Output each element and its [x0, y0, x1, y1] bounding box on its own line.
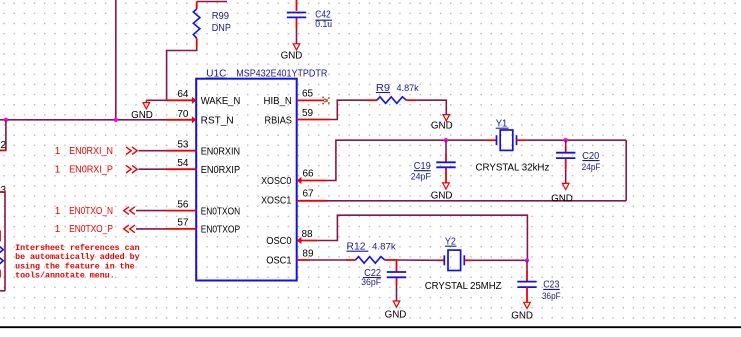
svg-text:EN0RXIP: EN0RXIP — [201, 165, 241, 176]
wire — [526, 139, 626, 141]
svg-text:GND: GND — [385, 310, 407, 321]
pin name OSC0 — [266, 236, 292, 247]
resistor R99 — [193, 2, 200, 48]
net label EN0TXO_N — [55, 206, 113, 217]
pin number 59 — [302, 108, 314, 119]
pin number 56 — [177, 199, 189, 210]
wire pin 88 — [297, 237, 317, 244]
svg-text:WAKE_N: WAKE_N — [201, 96, 241, 107]
svg-text:EN0RXIN: EN0RXIN — [201, 147, 240, 158]
capacitor C42 — [287, 13, 306, 29]
svg-text:64: 64 — [177, 89, 189, 100]
svg-text:DNP: DNP — [212, 23, 231, 34]
wire pin 56 — [136, 210, 197, 212]
wire — [330, 100, 366, 119]
svg-text:88: 88 — [302, 229, 314, 240]
note text — [15, 243, 139, 280]
node junction — [114, 118, 118, 122]
svg-text:EN0RXI_P: EN0RXI_P — [69, 165, 113, 176]
wire — [0, 119, 166, 121]
wire — [416, 100, 446, 114]
capacitor C23 — [517, 261, 536, 303]
pin name XOSC1 — [261, 196, 292, 207]
sheet connector — [124, 207, 135, 215]
label C42 — [315, 10, 332, 21]
svg-text:4.87k: 4.87k — [397, 83, 419, 94]
node junction — [564, 138, 568, 142]
svg-text:65: 65 — [302, 89, 314, 100]
pin number 3 — [1, 185, 7, 196]
wire pin 57 — [136, 228, 197, 230]
label 4.87k R9 — [397, 83, 419, 94]
svg-text:4.87k: 4.87k — [372, 242, 396, 253]
wire pin 65 — [297, 99, 324, 101]
wire — [197, 1, 227, 3]
svg-text:GND: GND — [551, 193, 573, 204]
svg-text:OSC0: OSC0 — [266, 236, 292, 247]
wire — [296, 0, 298, 11]
svg-text:54: 54 — [177, 158, 189, 169]
svg-text:1: 1 — [55, 146, 61, 157]
svg-text:24pF: 24pF — [411, 171, 431, 181]
label C19 — [414, 161, 431, 172]
wire pin 53 — [139, 150, 197, 152]
svg-text:36pF: 36pF — [542, 291, 561, 301]
label R99 — [212, 11, 230, 22]
label C20 — [582, 151, 599, 162]
wire pin 66 — [297, 177, 327, 184]
svg-text:using the feature in the: using the feature in the — [15, 261, 135, 271]
svg-text:EN0TXO_N: EN0TXO_N — [69, 206, 113, 217]
net label EN0RXI_P — [55, 165, 113, 176]
wire — [472, 259, 527, 261]
ground — [551, 183, 573, 204]
capacitor C22 — [387, 260, 406, 301]
wire — [625, 140, 627, 201]
wire — [438, 259, 444, 261]
label 24pF C20 — [582, 162, 601, 172]
wire — [0, 192, 5, 291]
svg-text:59: 59 — [302, 108, 314, 119]
wire — [310, 259, 346, 261]
svg-text:53: 53 — [177, 140, 189, 151]
svg-text:CRYSTAL 25MHZ: CRYSTAL 25MHZ — [425, 281, 502, 292]
pin name RBIAS — [265, 116, 293, 127]
crystal Y1 — [497, 130, 517, 150]
node junction — [525, 258, 529, 262]
wire — [517, 139, 527, 141]
ground — [431, 183, 453, 202]
pin name XOSC0 — [261, 176, 292, 187]
wire — [446, 139, 486, 141]
wire — [296, 29, 298, 44]
svg-text:89: 89 — [302, 249, 314, 260]
label 36pF C23 — [542, 291, 561, 301]
node junction — [444, 138, 448, 142]
svg-text:R99: R99 — [212, 11, 230, 22]
pin number 66 — [303, 169, 315, 180]
pin number 65 — [302, 89, 314, 100]
pin number 54 — [177, 158, 189, 169]
capacitor C19 — [436, 140, 455, 183]
label 24pF C19 — [411, 171, 431, 181]
svg-text:66: 66 — [303, 169, 315, 180]
svg-text:67: 67 — [303, 188, 315, 199]
pin name EN0RXIN — [201, 147, 240, 158]
svg-text:36pF: 36pF — [361, 277, 381, 287]
pin name RST_N — [201, 116, 234, 127]
svg-text:EN0RXI_N: EN0RXI_N — [69, 146, 113, 157]
svg-text:70: 70 — [177, 109, 189, 120]
svg-text:1: 1 — [55, 206, 61, 217]
wire pin 54 — [139, 168, 197, 170]
pin number 70 — [177, 109, 189, 120]
pin name OSC1 — [266, 256, 292, 267]
svg-text:HIB_N: HIB_N — [264, 96, 292, 107]
label MSP432E401YTPDTR — [236, 68, 327, 79]
op-amp U1C MSP432E401YTPDTR box — [196, 79, 297, 281]
node junction — [4, 118, 8, 122]
svg-text:tools/annotate menu.: tools/annotate menu. — [15, 270, 115, 280]
wire pin 70 — [166, 116, 196, 123]
resistor R9 — [366, 97, 416, 104]
svg-text:GND: GND — [431, 121, 453, 132]
label Y2 — [445, 237, 457, 248]
wire pin 59 — [297, 119, 330, 121]
svg-text:57: 57 — [177, 218, 189, 229]
label 0.1u — [315, 19, 332, 29]
pin name WAKE_N — [201, 96, 241, 107]
svg-text:be automatically added by: be automatically added by — [15, 252, 139, 262]
svg-text:RBIAS: RBIAS — [265, 116, 293, 127]
svg-text:XOSC0: XOSC0 — [261, 176, 292, 187]
svg-text:24pF: 24pF — [582, 162, 601, 172]
crystal Y2 — [444, 250, 464, 270]
label C22 — [363, 268, 382, 279]
sheet connector — [126, 165, 137, 173]
label 4.87k R12 — [372, 242, 396, 253]
svg-text:2: 2 — [1, 140, 7, 151]
svg-text:OSC1: OSC1 — [266, 256, 292, 267]
pin number 67 — [303, 188, 315, 199]
svg-text:1: 1 — [55, 224, 61, 235]
pin number 2 — [1, 140, 7, 151]
wire — [327, 140, 446, 180]
wire — [397, 259, 439, 261]
label U1C — [206, 68, 227, 79]
net label EN0TXO_P — [55, 224, 113, 235]
ground — [131, 103, 153, 122]
svg-text:XOSC1: XOSC1 — [261, 196, 292, 207]
label Y1 — [496, 119, 509, 130]
label CRYSTAL 25MHZ — [425, 281, 502, 292]
svg-text:1: 1 — [55, 165, 61, 176]
wire — [5, 120, 7, 151]
label 36pF C22 — [361, 277, 381, 287]
svg-text:56: 56 — [177, 199, 189, 210]
wire — [486, 139, 496, 141]
resistor R12 — [346, 257, 397, 264]
svg-text:GND: GND — [131, 110, 153, 121]
label C23 — [543, 280, 560, 291]
pin number 88 — [302, 229, 314, 240]
pin name EN0RXIP — [201, 165, 241, 176]
resistor (edge) — [0, 231, 3, 278]
svg-text:EN0TXON: EN0TXON — [201, 206, 240, 217]
label R12 — [347, 242, 369, 253]
wire — [115, 0, 117, 120]
label CRYSTAL 32kHz — [476, 163, 550, 174]
pin number 64 — [177, 89, 189, 100]
wire — [317, 215, 527, 260]
wire pin 89 — [297, 259, 310, 261]
sheet connector — [124, 225, 135, 233]
pin number 89 — [302, 249, 314, 260]
pin name EN0TXOP — [201, 225, 241, 236]
wire — [464, 259, 472, 261]
sheet connector — [126, 147, 137, 155]
sheet border — [0, 326, 741, 328]
pin name HIB_N — [264, 96, 292, 107]
wire — [0, 191, 5, 193]
svg-text:EN0TXOP: EN0TXOP — [201, 225, 241, 236]
label R9 — [376, 83, 391, 94]
svg-text:0.1u: 0.1u — [315, 19, 332, 29]
pin number 57 — [177, 218, 189, 229]
label DNP — [212, 23, 231, 34]
svg-text:GND: GND — [281, 50, 303, 61]
wire — [0, 149, 7, 151]
svg-text:EN0TXO_P: EN0TXO_P — [69, 224, 113, 235]
svg-text:CRYSTAL 32kHz: CRYSTAL 32kHz — [476, 163, 550, 174]
wire — [167, 47, 197, 100]
svg-text:Intersheet references can: Intersheet references can — [15, 243, 139, 253]
net label EN0RXI_N — [55, 146, 113, 157]
svg-text:GND: GND — [511, 311, 533, 322]
capacitor C20 — [556, 140, 575, 183]
svg-text:GND: GND — [431, 190, 453, 201]
ground — [431, 115, 453, 132]
svg-text:RST_N: RST_N — [201, 116, 234, 127]
ground — [385, 301, 407, 321]
wire — [327, 200, 627, 202]
wire pin 67 — [297, 200, 327, 202]
ground — [511, 302, 533, 321]
svg-text:MSP432E401YTPDTR: MSP432E401YTPDTR — [236, 68, 327, 79]
wire — [146, 100, 166, 102]
pin name EN0TXON — [201, 206, 240, 217]
no-connect X pin 65 — [323, 97, 331, 104]
pin number 53 — [177, 140, 189, 151]
wire pin 64 — [167, 97, 197, 104]
ground — [281, 44, 303, 62]
